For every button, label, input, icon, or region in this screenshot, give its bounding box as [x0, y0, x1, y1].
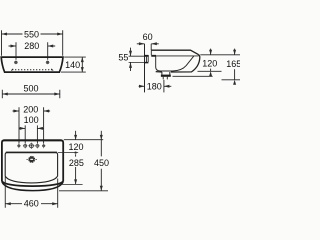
plan view outer outline [2, 140, 63, 186]
dim 100 line [19, 127, 44, 130]
dim 60 line [137, 42, 159, 45]
svg-text:140: 140 [65, 60, 80, 70]
side view top rim [151, 50, 198, 54]
dim 140 label [65, 60, 81, 69]
svg-text:55: 55 [118, 52, 128, 62]
dim 100 extension lines [25, 125, 37, 143]
plan top extension line [64, 139, 103, 141]
drain waste symbol [27, 156, 37, 163]
plan skirt extension line [59, 190, 108, 192]
dim 180 line [139, 85, 172, 88]
plan view inner bowl top edge [6, 151, 57, 153]
dim 500 line [2, 93, 60, 96]
tap hole outer left [17, 143, 20, 148]
dim chain dot [74, 151, 76, 153]
dim 140 extension lines [61, 57, 86, 72]
svg-text:180: 180 [147, 82, 162, 92]
dim 200 extension lines [19, 107, 44, 143]
tap hole inner left [23, 143, 27, 148]
svg-text:285: 285 [69, 158, 84, 168]
side view waste pipe stub [163, 77, 167, 80]
front view basin outline [1, 57, 63, 72]
tap hole centre [28, 143, 34, 149]
svg-text:100: 100 [24, 115, 39, 125]
svg-text:165: 165 [226, 59, 240, 69]
svg-text:460: 460 [24, 199, 39, 209]
svg-text:60: 60 [143, 32, 153, 42]
side view tap hole slot sides [148, 50, 151, 56]
dim 280 line [9, 45, 56, 48]
plan bowl front extension line [58, 183, 83, 185]
side view back wall line [144, 44, 146, 93]
dim 460 extension lines [5, 177, 57, 208]
side view back fixing bracket [146, 57, 148, 62]
dotted line end ticks [11, 69, 53, 71]
side view right extension line trap bottom [222, 79, 241, 81]
plan view inner bowl outline [5, 152, 57, 183]
dim 285 plan line [74, 154, 77, 184]
side view rim bottom edge [152, 55, 199, 57]
dim 550 extension lines [2, 30, 63, 56]
dim 100 label [22, 115, 41, 124]
side view right extension line bowl bottom [198, 70, 222, 72]
front view fixing hole left [14, 61, 18, 65]
side view bowl interior line [156, 56, 194, 71]
plan view front skirt curve [2, 182, 63, 191]
tap hole inner right [35, 143, 39, 148]
side view bottom line to drain [156, 71, 162, 73]
dim 180 drain centreline extension [163, 80, 165, 93]
dim 140 line [81, 57, 84, 72]
dim 120 line [209, 49, 212, 77]
svg-text:120: 120 [202, 58, 217, 68]
svg-text:200: 200 [23, 104, 38, 114]
dim 165 line [233, 49, 236, 85]
dim 460 line [5, 202, 57, 205]
dim 450 line [100, 131, 103, 191]
dim 55 extension lines [129, 56, 145, 62]
dim 500 extension lines [2, 90, 60, 98]
side view right extension line top [200, 54, 240, 56]
side view right extension line drain bottom [173, 75, 213, 77]
dim 280 extension lines [16, 42, 48, 60]
front view fixing hole right [46, 61, 50, 65]
plan view top edge overdraw [3, 139, 62, 141]
dim 550 line [2, 33, 63, 36]
svg-text:500: 500 [23, 84, 38, 94]
front view dotted overflow line [12, 69, 52, 71]
plan ledge extension line [58, 152, 78, 154]
dim 120 plan line [74, 131, 77, 140]
side view back deck edge [144, 55, 156, 57]
side view outer front and bottom profile [171, 54, 200, 72]
tap hole outer right [42, 143, 45, 148]
side view drain boss [161, 72, 171, 76]
svg-text:550: 550 [24, 29, 39, 39]
dim 60 right extension line / tap hole centreline [150, 44, 152, 50]
svg-text:450: 450 [94, 158, 109, 168]
dim 55 line [129, 48, 132, 71]
svg-text:120: 120 [68, 142, 83, 152]
side view bracket bottom lug [144, 62, 148, 64]
dim 200 line [13, 110, 51, 113]
svg-text:280: 280 [24, 41, 39, 51]
